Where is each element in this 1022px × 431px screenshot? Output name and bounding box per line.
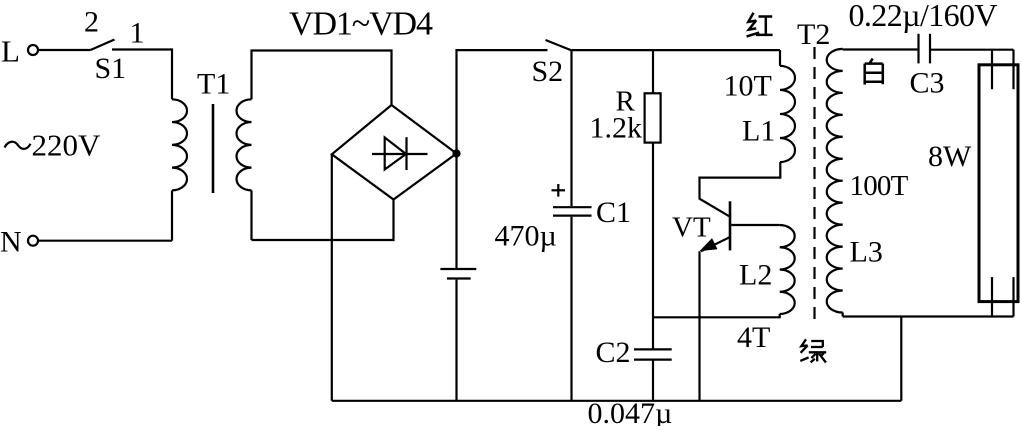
svg-text:C3: C3	[910, 67, 945, 100]
svg-text:T1: T1	[197, 68, 230, 101]
svg-text:8W: 8W	[928, 140, 972, 173]
svg-text:C1: C1	[596, 196, 631, 229]
svg-text:S2: S2	[532, 55, 564, 88]
svg-text:T2: T2	[797, 18, 830, 51]
svg-text:1.2k: 1.2k	[590, 112, 643, 145]
svg-text:VD1~VD4: VD1~VD4	[289, 6, 433, 43]
svg-text:VT: VT	[672, 212, 711, 244]
svg-text:0.22µ/160V: 0.22µ/160V	[849, 0, 998, 33]
svg-text:1: 1	[130, 17, 145, 50]
svg-text:470µ: 470µ	[495, 220, 557, 253]
svg-text:C2: C2	[596, 336, 631, 369]
svg-text:4T: 4T	[737, 321, 770, 354]
svg-text:L: L	[1, 34, 20, 69]
svg-text:L2: L2	[739, 259, 772, 292]
svg-text:N: N	[0, 226, 22, 259]
svg-text:2: 2	[84, 5, 99, 38]
svg-text:10T: 10T	[724, 70, 772, 103]
svg-text:220V: 220V	[32, 128, 102, 163]
svg-text:100T: 100T	[850, 170, 909, 202]
svg-text:S1: S1	[95, 52, 127, 85]
svg-text:0.047µ: 0.047µ	[588, 397, 673, 426]
svg-text:L3: L3	[850, 235, 883, 268]
svg-text:L1: L1	[742, 115, 775, 148]
